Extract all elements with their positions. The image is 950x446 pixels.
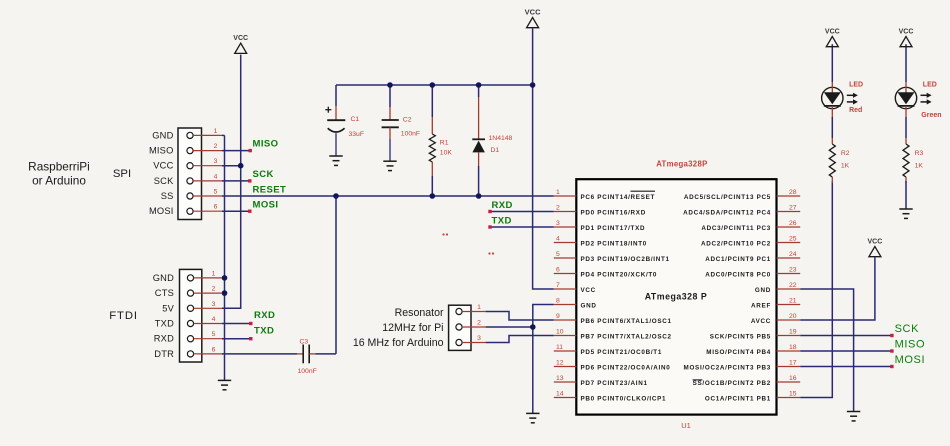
- svg-text:12MHz for Pi: 12MHz for Pi: [382, 322, 443, 334]
- svg-text:RXD: RXD: [254, 310, 275, 321]
- svg-text:C2: C2: [403, 116, 412, 123]
- svg-text:TXD: TXD: [492, 215, 512, 226]
- svg-text:1: 1: [477, 304, 481, 311]
- svg-text:PD3 PCINT19/OC2B/INT1: PD3 PCINT19/OC2B/INT1: [581, 256, 670, 263]
- svg-text:6: 6: [556, 266, 560, 273]
- svg-text:20: 20: [789, 313, 797, 320]
- svg-text:FTDI: FTDI: [109, 310, 138, 322]
- svg-text:28: 28: [789, 189, 797, 196]
- svg-text:PD1 PCINT17/TXD: PD1 PCINT17/TXD: [581, 225, 646, 232]
- svg-text:R2: R2: [841, 150, 850, 157]
- svg-text:12: 12: [556, 359, 564, 366]
- svg-text:GND: GND: [755, 287, 771, 294]
- svg-text:ATmega328P: ATmega328P: [656, 160, 707, 169]
- svg-text:PB6 PCINT6/XTAL1/OSC1: PB6 PCINT6/XTAL1/OSC1: [581, 318, 672, 325]
- svg-text:19: 19: [789, 328, 797, 335]
- svg-text:SCK: SCK: [895, 323, 919, 335]
- svg-text:26: 26: [789, 220, 797, 227]
- svg-text:SCK/PCINT5 PB5: SCK/PCINT5 PB5: [710, 333, 771, 340]
- svg-text:ADC2/PCINT10 PC2: ADC2/PCINT10 PC2: [701, 240, 771, 247]
- svg-text:24: 24: [789, 251, 797, 258]
- svg-text:6: 6: [214, 204, 218, 211]
- svg-text:2: 2: [477, 320, 481, 327]
- svg-text:RESET: RESET: [253, 184, 287, 195]
- svg-text:RXD: RXD: [492, 200, 513, 211]
- svg-text:1K: 1K: [915, 163, 924, 170]
- svg-text:VCC: VCC: [581, 287, 596, 294]
- svg-text:5V: 5V: [162, 303, 174, 313]
- svg-text:18: 18: [789, 344, 797, 351]
- svg-text:MOSI: MOSI: [895, 354, 926, 366]
- svg-text:SPI: SPI: [113, 168, 131, 180]
- svg-text:3: 3: [212, 301, 216, 308]
- svg-text:PD7 PCINT23/AIN1: PD7 PCINT23/AIN1: [581, 380, 648, 387]
- svg-text:ADC4/SDA/PCINT12 PC4: ADC4/SDA/PCINT12 PC4: [683, 209, 771, 216]
- svg-text:Resonator: Resonator: [395, 307, 444, 319]
- svg-text:13: 13: [556, 375, 564, 382]
- svg-text:AVCC: AVCC: [751, 318, 771, 325]
- svg-text:C1: C1: [351, 116, 360, 123]
- svg-text:3: 3: [214, 158, 218, 165]
- svg-text:MISO: MISO: [895, 339, 926, 351]
- svg-text:2: 2: [556, 204, 560, 211]
- svg-text:U1: U1: [681, 421, 691, 430]
- svg-text:25: 25: [789, 235, 797, 242]
- svg-text:33uF: 33uF: [349, 131, 365, 138]
- svg-text:1: 1: [214, 128, 218, 135]
- svg-text:TXD: TXD: [254, 325, 274, 336]
- svg-text:MOSI: MOSI: [149, 206, 174, 216]
- svg-text:OC1A/PCINT1 PB1: OC1A/PCINT1 PB1: [705, 395, 771, 402]
- svg-text:1: 1: [212, 270, 216, 277]
- svg-text:ATmega328 P: ATmega328 P: [645, 292, 708, 302]
- svg-text:SS: SS: [161, 191, 174, 201]
- svg-text:MISO/PCINT4 PB4: MISO/PCINT4 PB4: [706, 349, 771, 356]
- svg-text:RaspberriPi: RaspberriPi: [28, 160, 90, 174]
- svg-text:16 MHz for Arduino: 16 MHz for Arduino: [353, 337, 444, 349]
- svg-text:1: 1: [556, 189, 560, 196]
- svg-text:TXD: TXD: [155, 319, 174, 329]
- svg-text:4: 4: [556, 235, 560, 242]
- svg-text:AREF: AREF: [751, 302, 771, 309]
- svg-text:MOSI/OC2A/PCINT3 PB3: MOSI/OC2A/PCINT3 PB3: [684, 364, 771, 371]
- svg-text:VCC: VCC: [153, 161, 173, 171]
- svg-text:27: 27: [789, 204, 797, 211]
- svg-text:ADC0/PCINT8 PC0: ADC0/PCINT8 PC0: [705, 271, 771, 278]
- svg-text:GND: GND: [153, 273, 174, 283]
- svg-text:5: 5: [556, 251, 560, 258]
- svg-text:PD5 PCINT21/OC0B/T1: PD5 PCINT21/OC0B/T1: [581, 349, 663, 356]
- svg-text:SCK: SCK: [253, 169, 274, 180]
- svg-text:DTR: DTR: [154, 349, 174, 359]
- svg-text:14: 14: [556, 390, 564, 397]
- svg-text:5: 5: [214, 189, 218, 196]
- svg-text:PD0 PCINT16/RXD: PD0 PCINT16/RXD: [581, 209, 646, 216]
- svg-text:RXD: RXD: [154, 334, 174, 344]
- svg-text:6: 6: [212, 346, 216, 353]
- svg-text:10: 10: [556, 328, 564, 335]
- svg-text:3: 3: [556, 220, 560, 227]
- svg-text:VCC: VCC: [868, 239, 883, 246]
- svg-text:Green: Green: [921, 112, 941, 119]
- svg-text:4: 4: [212, 316, 216, 323]
- svg-text:R1: R1: [440, 140, 449, 147]
- svg-text:VCC: VCC: [825, 29, 840, 36]
- svg-text:2: 2: [214, 143, 218, 150]
- svg-text:Red: Red: [849, 107, 862, 114]
- svg-text:R3: R3: [915, 150, 924, 157]
- svg-text:100nF: 100nF: [298, 368, 317, 375]
- svg-text:PD4 PCINT20/XCK/T0: PD4 PCINT20/XCK/T0: [581, 271, 658, 278]
- svg-text:ADC3/PCINT11 PC3: ADC3/PCINT11 PC3: [701, 225, 771, 232]
- svg-text:GND: GND: [581, 302, 597, 309]
- svg-text:GND: GND: [152, 130, 173, 140]
- svg-text:9: 9: [556, 313, 560, 320]
- svg-text:7: 7: [556, 282, 560, 289]
- svg-text:PD6 PCINT22/OC0A/AIN0: PD6 PCINT22/OC0A/AIN0: [581, 364, 671, 371]
- svg-text:3: 3: [477, 335, 481, 342]
- svg-text:16: 16: [789, 375, 797, 382]
- svg-text:MISO: MISO: [149, 146, 174, 156]
- svg-text:D1: D1: [491, 147, 500, 154]
- svg-text:or Arduino: or Arduino: [32, 174, 86, 188]
- svg-text:4: 4: [214, 173, 218, 180]
- svg-text:8: 8: [556, 297, 560, 304]
- svg-text:10K: 10K: [440, 150, 453, 157]
- svg-text:SCK: SCK: [154, 176, 174, 186]
- svg-text:C3: C3: [300, 339, 309, 346]
- svg-text:ADC1/PCINT9 PC1: ADC1/PCINT9 PC1: [705, 256, 771, 263]
- svg-text:PB7 PCINT7/XTAL2/OSC2: PB7 PCINT7/XTAL2/OSC2: [581, 333, 672, 340]
- svg-text:PC6 PCINT14/RESET: PC6 PCINT14/RESET: [581, 194, 656, 201]
- svg-text:17: 17: [789, 359, 797, 366]
- svg-text:SS/OC1B/PCINT2 PB2: SS/OC1B/PCINT2 PB2: [693, 380, 771, 387]
- svg-text:100nF: 100nF: [401, 131, 420, 138]
- svg-text:23: 23: [789, 266, 797, 273]
- svg-text:LED: LED: [849, 82, 863, 89]
- svg-text:MOSI: MOSI: [253, 200, 279, 211]
- svg-text:VCC: VCC: [899, 29, 914, 36]
- svg-text:5: 5: [212, 331, 216, 338]
- svg-text:CTS: CTS: [155, 288, 174, 298]
- svg-text:MISO: MISO: [253, 139, 279, 150]
- svg-text:VCC: VCC: [525, 8, 541, 17]
- svg-text:2: 2: [212, 286, 216, 293]
- svg-text:ADC5/SCL/PCINT13 PC5: ADC5/SCL/PCINT13 PC5: [684, 194, 771, 201]
- svg-text:11: 11: [556, 344, 563, 351]
- svg-text:15: 15: [789, 390, 797, 397]
- svg-text:VCC: VCC: [233, 35, 248, 42]
- svg-text:PD2 PCINT18/INT0: PD2 PCINT18/INT0: [581, 240, 648, 247]
- svg-text:LED: LED: [923, 82, 937, 89]
- svg-text:1N4148: 1N4148: [489, 135, 513, 142]
- svg-text:1K: 1K: [841, 163, 850, 170]
- svg-text:22: 22: [789, 282, 797, 289]
- svg-text:PB0 PCINT0/CLKO/ICP1: PB0 PCINT0/CLKO/ICP1: [581, 395, 667, 402]
- svg-text:21: 21: [789, 297, 797, 304]
